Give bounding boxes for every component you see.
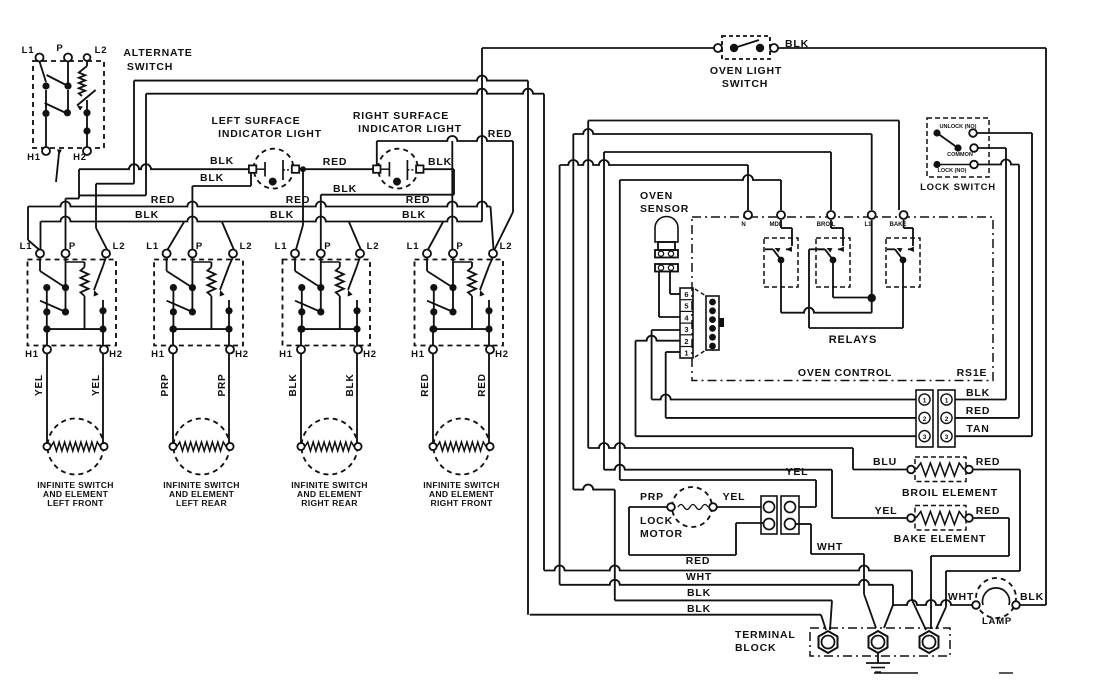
svg-text:LEFT REAR: LEFT REAR bbox=[176, 498, 227, 508]
svg-text:PRP: PRP bbox=[160, 374, 171, 397]
svg-text:COMMON: COMMON bbox=[947, 152, 973, 158]
wire BLK bus y=221.5 bbox=[41, 217, 483, 222]
svg-text:2: 2 bbox=[684, 337, 688, 346]
svg-text:TAN: TAN bbox=[966, 423, 989, 435]
svg-text:P: P bbox=[196, 241, 203, 252]
svg-text:H2: H2 bbox=[235, 349, 249, 360]
svg-text:LOCK SWITCH: LOCK SWITCH bbox=[920, 182, 996, 193]
svg-text:H1: H1 bbox=[411, 349, 425, 360]
wire RS1E row2 left feed bbox=[666, 417, 916, 419]
vertical x=619.8 MDL to lock motor chain bbox=[619, 180, 621, 480]
wire y=180 MDL chain bbox=[620, 175, 781, 180]
wire BLK row 2 bbox=[530, 614, 821, 616]
broil element bbox=[907, 457, 973, 482]
svg-text:RIGHT REAR: RIGHT REAR bbox=[301, 498, 358, 508]
wire chain A horizontal y=183.7 to left bbox=[96, 183, 134, 185]
terminal nut middle bbox=[869, 631, 888, 653]
svg-text:RS1E: RS1E bbox=[957, 367, 988, 379]
svg-text:OVEN CONTROL: OVEN CONTROL bbox=[798, 367, 892, 379]
right surface indicator light bbox=[373, 149, 423, 189]
lock motor connector block right bbox=[781, 496, 799, 534]
svg-text:PRP: PRP bbox=[640, 491, 664, 503]
wire right edge vertical x=1046 bbox=[1045, 48, 1047, 605]
svg-text:BLK: BLK bbox=[200, 172, 224, 184]
svg-text:N: N bbox=[741, 222, 746, 228]
wire to oven light switch y=48 bbox=[482, 47, 716, 49]
wire y=165 N chain bbox=[560, 160, 748, 165]
svg-text:INDICATOR LIGHT: INDICATOR LIGHT bbox=[358, 123, 462, 135]
svg-text:P: P bbox=[456, 241, 463, 252]
oven sensor probe bbox=[655, 217, 678, 272]
svg-text:BLK: BLK bbox=[333, 183, 357, 195]
svg-text:TERMINAL: TERMINAL bbox=[735, 629, 796, 641]
vertical P-sw4 bbox=[451, 141, 453, 249]
wire lock motor PRP loop bbox=[629, 506, 667, 508]
svg-text:RIGHT SURFACE: RIGHT SURFACE bbox=[353, 110, 449, 122]
lock motor connector block left bbox=[761, 496, 777, 534]
diag L1-sw4 to BLK bus bbox=[428, 222, 443, 250]
svg-text:RED: RED bbox=[686, 555, 711, 567]
svg-text:BLK: BLK bbox=[210, 155, 234, 167]
svg-text:RED: RED bbox=[151, 194, 176, 206]
svg-text:BLK: BLK bbox=[270, 209, 294, 221]
wire P-sw1 vertical bbox=[66, 198, 80, 200]
vertical x=482 from top wire down to BLK bus end bbox=[481, 48, 483, 222]
wire sensor cell1 to RS1E row2 bbox=[666, 351, 680, 353]
wire vertical x=528 (BLK2 chain) bbox=[527, 81, 529, 615]
svg-text:OVEN LIGHT: OVEN LIGHT bbox=[710, 65, 782, 77]
wire RS1E row1 right to BLK bbox=[955, 399, 1006, 401]
vertical x=604 bake YEL chain bbox=[603, 152, 605, 470]
svg-text:RED: RED bbox=[420, 373, 431, 397]
svg-text:LEFT FRONT: LEFT FRONT bbox=[47, 498, 104, 508]
svg-text:P: P bbox=[56, 43, 63, 54]
wire y=152 BROIL chain bbox=[604, 151, 831, 153]
svg-text:H1: H1 bbox=[27, 152, 41, 163]
svg-text:RED: RED bbox=[406, 194, 431, 206]
vertical x=559.6 to WHT row bbox=[559, 165, 561, 585]
wire chain B top y=93.7 bbox=[146, 89, 544, 94]
svg-text:L2: L2 bbox=[240, 241, 253, 252]
relay MDL (R1) bbox=[764, 238, 798, 287]
svg-text:H2: H2 bbox=[73, 152, 87, 163]
relay R3 pivot chain bbox=[902, 262, 904, 328]
sensor plug bbox=[695, 289, 724, 357]
RED bus right end to L2-sw4 bbox=[491, 207, 494, 250]
svg-text:3: 3 bbox=[684, 325, 688, 334]
L1 junction dot bbox=[871, 220, 873, 313]
sensor wires to connector bbox=[658, 272, 660, 317]
svg-text:RED: RED bbox=[976, 456, 1001, 468]
diag L2-sw2 to BLK bus bbox=[222, 222, 234, 250]
wire lamp WHT line bbox=[893, 600, 972, 605]
svg-text:L1: L1 bbox=[407, 241, 420, 252]
wire vertical x=544 (RED row chain) bbox=[543, 94, 545, 571]
terminal nut right bbox=[920, 631, 939, 653]
wire P-sw1 chain: light feed bbox=[78, 169, 80, 198]
wire chain B vertical x=146 bbox=[145, 94, 147, 196]
svg-text:YEL: YEL bbox=[723, 491, 746, 503]
wire y=134 L1 chain bbox=[573, 129, 871, 134]
wire unlock to x=1032 bbox=[977, 132, 1032, 134]
svg-text:3: 3 bbox=[945, 434, 949, 441]
wire lamp BLK to right edge bbox=[1020, 604, 1046, 606]
svg-text:RED: RED bbox=[477, 373, 488, 397]
RS1E terminal strip right column bbox=[938, 390, 955, 447]
svg-text:YEL: YEL bbox=[91, 374, 102, 396]
svg-text:LOCK (NO): LOCK (NO) bbox=[937, 168, 966, 174]
wire broil RED to lamp chain bbox=[973, 469, 1020, 471]
svg-text:BLK: BLK bbox=[687, 587, 711, 599]
terminal nut left bbox=[819, 631, 838, 653]
feeds into right nut bbox=[912, 600, 926, 630]
wire chain B horizontal y=195.4 to left bbox=[79, 194, 146, 196]
wire RED bus y=206.5 bbox=[28, 202, 491, 207]
left surface indicator light bbox=[249, 149, 299, 189]
control terminals N MDL BROIL L1 BAKE bbox=[744, 211, 752, 219]
wire BLK light1 feed y=169 bbox=[79, 164, 249, 169]
wire bake RED down to terminal block bbox=[973, 517, 1009, 519]
svg-text:BLK: BLK bbox=[966, 387, 990, 399]
svg-text:L2: L2 bbox=[500, 241, 513, 252]
svg-text:RED: RED bbox=[488, 128, 513, 140]
ground symbol bbox=[877, 653, 879, 663]
svg-text:SWITCH: SWITCH bbox=[127, 61, 173, 73]
wire RS1E row3 right to TAN bbox=[955, 435, 1032, 437]
svg-text:RED: RED bbox=[323, 156, 348, 168]
svg-text:WHT: WHT bbox=[686, 571, 712, 583]
wire BLK row bbox=[615, 599, 832, 601]
wire RS1E row3 left feed bbox=[636, 435, 917, 437]
sensor connector strip 6..1 bbox=[680, 288, 693, 358]
svg-text:SWITCH: SWITCH bbox=[722, 78, 768, 90]
svg-text:H1: H1 bbox=[279, 349, 293, 360]
svg-text:RED: RED bbox=[966, 405, 991, 417]
diag L1-sw2 to BLK bus bbox=[168, 222, 184, 250]
svg-text:RED: RED bbox=[976, 505, 1001, 517]
wire chain A vertical x=134 bbox=[133, 81, 135, 184]
infinite switch left front (sw1) bbox=[28, 250, 117, 443]
wire RS1E row2 right to RED bbox=[955, 417, 1019, 419]
svg-text:ALTERNATE: ALTERNATE bbox=[123, 47, 192, 59]
svg-text:INDICATOR LIGHT: INDICATOR LIGHT bbox=[218, 128, 322, 140]
lamp bbox=[972, 578, 1020, 618]
RS1E terminal strip left column bbox=[916, 390, 933, 447]
svg-text:BLK: BLK bbox=[687, 603, 711, 615]
svg-text:BLK: BLK bbox=[1020, 591, 1044, 603]
alternate switch pointer arrow bbox=[56, 153, 59, 182]
svg-text:SENSOR: SENSOR bbox=[640, 203, 689, 215]
svg-text:YEL: YEL bbox=[875, 505, 898, 517]
wire RED row bbox=[544, 566, 912, 571]
infinite switch right rear (sw3) bbox=[283, 250, 371, 443]
feeds into middle nut bbox=[864, 594, 876, 628]
surface element LEFT FRONT bbox=[43, 419, 107, 475]
svg-text:5: 5 bbox=[684, 302, 688, 311]
relay feed jogs bbox=[780, 220, 782, 228]
relay R2 pivot to L1 junction bbox=[832, 262, 834, 298]
svg-text:BLU: BLU bbox=[873, 456, 897, 468]
wire YEL y=469.7 to bake element bbox=[604, 465, 832, 470]
vertical x=588.2 BLU broil chain bbox=[587, 121, 589, 449]
svg-text:BLK: BLK bbox=[428, 156, 452, 168]
wire tap x=303 to L1-sw3 bbox=[302, 169, 304, 225]
svg-text:LOCK: LOCK bbox=[640, 515, 673, 527]
wire BLK chain A top y=80.6 bbox=[134, 76, 528, 81]
wire sensor cell2 to RS1E row3 bbox=[636, 336, 681, 341]
svg-text:BLK: BLK bbox=[402, 209, 426, 221]
lock motor bbox=[667, 487, 717, 527]
wire BLK from light1 left terminal to P-sw2 bbox=[192, 185, 251, 187]
svg-text:BROIL ELEMENT: BROIL ELEMENT bbox=[902, 487, 998, 499]
relay BROIL (R2) bbox=[816, 238, 850, 287]
svg-text:L1: L1 bbox=[20, 241, 33, 252]
wire lock-no to x=1019 bbox=[978, 160, 1019, 165]
surface element LEFT REAR bbox=[169, 419, 233, 475]
relay BAKE (R3) bbox=[886, 238, 920, 287]
wire y=480 to lock motor connector bbox=[620, 479, 816, 481]
svg-text:H2: H2 bbox=[495, 349, 509, 360]
infinite switch right front (sw4) bbox=[415, 250, 504, 443]
svg-text:YEL: YEL bbox=[786, 466, 809, 478]
svg-text:L1: L1 bbox=[146, 241, 159, 252]
svg-text:H2: H2 bbox=[363, 349, 377, 360]
svg-text:RED: RED bbox=[286, 194, 311, 206]
BLK bus left end to L1-sw1 bbox=[40, 222, 42, 250]
wire chain A vertical x=96 down toward L2 sw1 bbox=[95, 184, 97, 228]
alternate switch bbox=[33, 54, 104, 156]
wire WHT row bbox=[560, 580, 893, 585]
oven light switch bbox=[714, 36, 778, 59]
svg-text:WHT: WHT bbox=[817, 541, 843, 553]
svg-text:L2: L2 bbox=[95, 45, 108, 56]
svg-text:H2: H2 bbox=[109, 349, 123, 360]
diag L2-sw3 to BLK bus bbox=[349, 222, 361, 250]
svg-text:6: 6 bbox=[684, 290, 688, 299]
svg-text:BLK: BLK bbox=[135, 209, 159, 221]
svg-text:H1: H1 bbox=[25, 349, 39, 360]
svg-text:P: P bbox=[324, 241, 331, 252]
svg-text:2: 2 bbox=[945, 416, 949, 423]
svg-text:BAKE ELEMENT: BAKE ELEMENT bbox=[894, 533, 986, 545]
svg-text:RIGHT FRONT: RIGHT FRONT bbox=[430, 498, 492, 508]
svg-text:MOTOR: MOTOR bbox=[640, 528, 683, 540]
wire RS1E row1 left feed bbox=[652, 395, 916, 400]
svg-text:OVEN: OVEN bbox=[640, 190, 673, 202]
surface element RIGHT REAR bbox=[297, 419, 361, 475]
wire lock motor YEL to connector bbox=[717, 506, 761, 508]
infinite switch left rear (sw2) bbox=[154, 250, 243, 443]
svg-text:L2: L2 bbox=[367, 241, 380, 252]
wire connector WHT chain bbox=[796, 523, 811, 525]
wire y=120.5 BAKE chain bbox=[588, 120, 899, 122]
svg-text:YEL: YEL bbox=[34, 374, 45, 396]
svg-text:BLK: BLK bbox=[288, 374, 299, 397]
surface element RIGHT FRONT bbox=[429, 419, 493, 475]
svg-text:WHT: WHT bbox=[948, 591, 974, 603]
svg-text:LEFT SURFACE: LEFT SURFACE bbox=[212, 115, 301, 127]
svg-text:H1: H1 bbox=[151, 349, 165, 360]
terminal block dashed box bbox=[810, 628, 950, 656]
relay R1 pivot to L1 junction bbox=[780, 262, 782, 313]
wire common to x=1006 bbox=[978, 147, 1006, 149]
svg-text:L1: L1 bbox=[22, 45, 35, 56]
svg-text:2: 2 bbox=[923, 416, 927, 423]
svg-text:L2: L2 bbox=[113, 241, 126, 252]
bake element bbox=[907, 506, 973, 531]
svg-text:1: 1 bbox=[923, 398, 927, 405]
svg-text:P: P bbox=[69, 241, 76, 252]
svg-text:RELAYS: RELAYS bbox=[829, 334, 877, 346]
svg-text:3: 3 bbox=[923, 434, 927, 441]
svg-text:1: 1 bbox=[945, 398, 949, 405]
RED bus left end to L1-sw1 bbox=[27, 207, 29, 241]
lock switch bbox=[927, 118, 989, 177]
svg-text:BLK: BLK bbox=[345, 374, 356, 397]
vertical x=573.3 to BLK row via y=489.6 bbox=[572, 134, 574, 490]
feeds into left nut bbox=[821, 615, 826, 630]
wire sensor cell3 to RS1E row1 bbox=[652, 329, 680, 331]
oven control dashed box bbox=[692, 217, 993, 381]
wire y=141 light2 to L2-sw4 bbox=[376, 141, 378, 165]
wire RED between lights bbox=[299, 168, 373, 170]
svg-text:1: 1 bbox=[684, 349, 688, 358]
svg-text:LAMP: LAMP bbox=[982, 616, 1012, 627]
wire BLK from light2 right terminal to P-sw3 bbox=[424, 168, 455, 170]
svg-text:PRP: PRP bbox=[217, 374, 228, 397]
svg-text:BLOCK: BLOCK bbox=[735, 642, 776, 654]
wire BLK from oven light switch to right edge bbox=[778, 47, 1046, 49]
wire BLU y=448 to broil element bbox=[588, 443, 853, 448]
svg-text:UNLOCK (NO): UNLOCK (NO) bbox=[940, 124, 977, 130]
stray marks bottom bbox=[874, 672, 918, 674]
svg-text:L1: L1 bbox=[275, 241, 288, 252]
